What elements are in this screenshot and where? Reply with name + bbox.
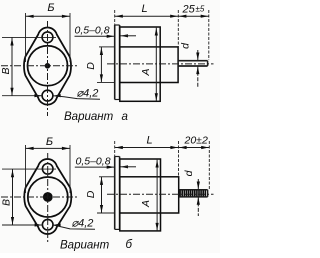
svg-text:⌀4,2: ⌀4,2 <box>72 218 94 230</box>
svg-text:Б: Б <box>46 136 53 148</box>
svg-text:25: 25 <box>182 4 196 16</box>
svg-text:В: В <box>1 199 13 206</box>
svg-text:В: В <box>0 67 12 74</box>
svg-text:Вариант: Вариант <box>60 240 110 252</box>
svg-text:L: L <box>146 135 152 147</box>
svg-text:D: D <box>85 62 97 70</box>
svg-text:а: а <box>122 111 128 123</box>
svg-text:D: D <box>85 190 97 198</box>
svg-text:20±2: 20±2 <box>184 135 208 147</box>
svg-text:Вариант: Вариант <box>64 111 114 123</box>
svg-text:Б: Б <box>47 2 54 14</box>
svg-text:L: L <box>141 3 147 15</box>
svg-text:±5: ±5 <box>196 5 205 14</box>
svg-text:б: б <box>126 239 133 251</box>
svg-text:A: A <box>140 68 152 76</box>
svg-text:⌀4,2: ⌀4,2 <box>77 88 99 100</box>
svg-text:A: A <box>140 200 152 208</box>
svg-text:0,5–0,8: 0,5–0,8 <box>75 25 110 37</box>
svg-text:0,5–0,8: 0,5–0,8 <box>76 156 111 168</box>
